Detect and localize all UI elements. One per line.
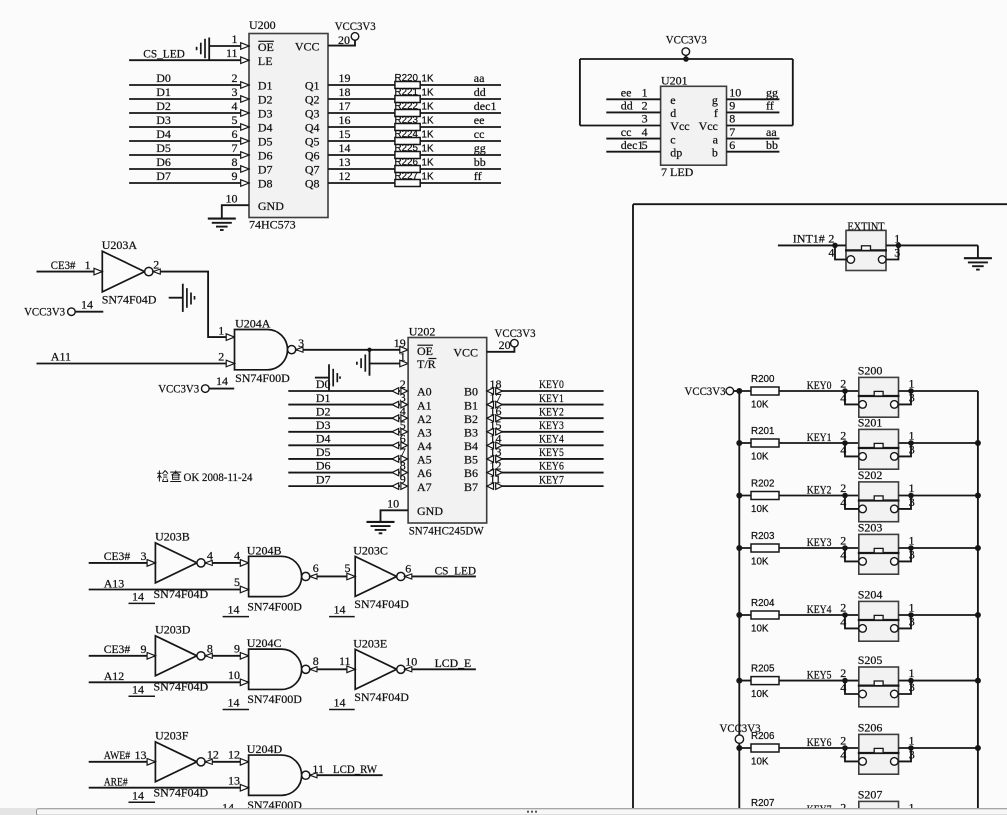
resistor R205 10K [751,677,779,685]
wire U204C output to U203E input [310,668,355,670]
U200 pin 9 wire, net D7 [129,182,249,184]
svg-text:1K: 1K [422,73,434,84]
svg-text:U203B: U203B [155,530,190,544]
U202 pin 17 wire, net KEY1 [495,404,604,406]
junction on OE wire [367,348,371,352]
svg-text:10K: 10K [751,689,769,700]
S201 pin 1 junction [908,440,914,446]
svg-text:R201: R201 [751,426,774,437]
U200 pin 8 wire, net D6 [129,168,249,170]
svg-text:14: 14 [339,141,351,155]
svg-text:CE3#: CE3# [104,549,131,563]
svg-text:1K: 1K [422,171,434,182]
svg-text:ee: ee [621,86,632,100]
S206 contacts [859,758,867,766]
svg-text:5: 5 [232,113,238,127]
svg-text:20: 20 [338,33,350,47]
svg-text:B7: B7 [464,480,478,494]
svg-text:1: 1 [232,32,238,46]
svg-text:KEY3: KEY3 [807,535,832,549]
svg-text:D4: D4 [316,432,331,446]
svg-text:4: 4 [840,443,846,457]
svg-text:S202: S202 [858,468,883,482]
svg-text:A4: A4 [417,439,432,453]
svg-text:D4: D4 [258,121,273,135]
svg-text:OE: OE [417,344,433,358]
svg-text:6: 6 [729,138,735,152]
nand gate U204C [249,649,302,689]
svg-text:2: 2 [840,481,846,495]
svg-text:aa: aa [474,71,485,85]
svg-text:11: 11 [339,654,351,668]
svg-text:U203A: U203A [102,238,138,252]
svg-text:14: 14 [334,695,346,709]
svg-text:Q3: Q3 [305,107,320,121]
svg-text:VCC3V3: VCC3V3 [335,19,376,33]
junction R200 at left bus [736,388,742,394]
junction R204 at left bus [736,612,742,618]
svg-text:15: 15 [490,418,502,432]
svg-text:gg: gg [474,141,486,155]
svg-text:SN74F00D: SN74F00D [247,692,302,706]
U202 pin 11 wire, net KEY7 [495,485,604,487]
U200 pin 2 wire, net D0 [129,84,249,86]
S204 pin 1 junction [908,612,914,618]
S200 button bar [858,395,900,397]
svg-text:bb: bb [474,155,486,169]
switch S203 body [859,534,899,574]
svg-text:10K: 10K [751,624,769,635]
svg-text:OK 2008-11-24: OK 2008-11-24 [184,470,253,484]
svg-text:VCC: VCC [295,39,320,53]
svg-text:D6: D6 [316,459,331,473]
svg-text:CE3#: CE3# [51,258,76,272]
svg-text:2: 2 [642,99,648,113]
U204C second input wire, net A12 [89,681,249,683]
U200 pin 20 VCC wire to VCC3V3 [328,40,355,45]
svg-text:14: 14 [81,297,93,311]
U202 pin 9 wire, net D7 [288,485,400,487]
svg-text:3: 3 [232,85,238,99]
svg-text:CE3#: CE3# [104,642,131,656]
ground (sideways, floating) near U203A [169,297,183,299]
svg-text:4: 4 [642,125,648,139]
U202 pin 18 wire, net KEY0 [495,390,604,392]
U203A pin 2 output wire to U204A pin 1 [153,272,235,338]
svg-text:10: 10 [405,654,417,668]
S206 pin 4 wire [845,748,859,761]
svg-text:D8: D8 [258,177,273,191]
svg-text:R224: R224 [395,129,419,140]
svg-text:S206: S206 [858,721,883,735]
S207 pin 2 junction [842,812,848,815]
svg-text:14: 14 [216,374,228,388]
svg-text:4: 4 [840,681,846,695]
svg-text:6: 6 [232,127,238,141]
svg-text:GND: GND [258,199,284,213]
S205 pin 1 junction [908,678,914,684]
svg-text:7: 7 [232,141,238,155]
S205 pin 4 wire [845,681,859,694]
svg-text:VCC: VCC [453,346,478,360]
svg-text:Q6: Q6 [305,149,320,163]
svg-text:16: 16 [339,113,351,127]
svg-text:A13: A13 [104,576,125,590]
S204 contacts [859,625,867,633]
svg-text:3: 3 [642,112,648,126]
S206 button bar [858,752,900,754]
S202 contacts [859,505,867,513]
U202 pin 3 wire, net D1 [288,404,400,406]
svg-text:4: 4 [840,615,846,629]
power symbol VCC3V3 at U200 pin 20 [351,33,359,41]
svg-text:LCD_RW: LCD_RW [333,762,378,776]
wire U203B output to U204B input [205,562,248,564]
svg-text:13: 13 [339,155,351,169]
svg-text:KEY3: KEY3 [539,418,564,432]
svg-text:R200: R200 [751,374,775,385]
svg-text:D3: D3 [258,107,273,121]
U201 pin 3 wire to VCC rail [580,125,661,127]
svg-text:KEY1: KEY1 [807,430,832,444]
switch S201 body [859,429,899,469]
svg-text:KEY6: KEY6 [539,459,564,473]
svg-text:B3: B3 [464,425,478,439]
svg-text:dec1: dec1 [474,99,497,113]
svg-text:D1: D1 [316,391,331,405]
svg-text:GND: GND [417,504,443,518]
S204 pin 1/3 wires [899,614,978,616]
svg-text:10K: 10K [751,557,769,568]
svg-text:S203: S203 [858,521,883,535]
svg-text:D5: D5 [316,445,331,459]
U200 pin 14 Q6 output wire [328,154,501,156]
svg-text:B0: B0 [464,385,478,399]
resistor R222 1K [395,110,420,117]
svg-text:1: 1 [642,86,648,100]
svg-text:Q2: Q2 [305,93,320,107]
svg-text:Vcc: Vcc [699,119,718,133]
resistor R200 10K [751,387,779,395]
svg-text:SN74HC245DW: SN74HC245DW [409,523,485,537]
svg-text:B5: B5 [464,453,478,467]
wire VCC rail over U201 [580,58,793,60]
svg-text:KEY5: KEY5 [539,445,564,459]
key row wire, net KEY5 [739,680,859,682]
S206 pin 2 junction [842,745,848,751]
svg-text:cc: cc [621,125,632,139]
svg-text:VCC3V3: VCC3V3 [666,32,707,46]
svg-text:9: 9 [400,472,406,486]
svg-text:SN74F00D: SN74F00D [247,599,302,613]
junction R206 at left bus [736,745,742,751]
junction right bus row 1 [975,440,981,446]
svg-text:4: 4 [840,748,846,762]
S204 pin 2 junction [842,612,848,618]
svg-text:dd: dd [621,99,633,113]
svg-text:T/R: T/R [417,357,436,371]
S200 contacts [859,401,867,409]
nand gate U204B [249,556,302,596]
EXTINT pin 2 wire, net INT1# [778,244,846,246]
resistor R224 1K [395,138,420,145]
svg-text:ARE#: ARE# [104,775,128,789]
svg-text:19: 19 [394,336,406,350]
U202 pin 15 wire, net KEY3 [495,431,604,433]
U202 pin 20 VCC wire [487,347,515,352]
S205 contacts [859,690,867,698]
svg-text:4: 4 [232,99,238,113]
U200 pin 4 wire, net D2 [129,112,249,114]
svg-text:U203D: U203D [155,622,191,636]
svg-text:U204A: U204A [235,317,271,331]
annotation text 检查OK 2008-11-24 [158,471,160,482]
inverter U203B [155,543,197,583]
svg-text:8: 8 [729,112,735,126]
scrollbar thumb [37,809,1007,815]
svg-text:g: g [712,93,718,107]
svg-text:D0: D0 [156,71,171,85]
svg-text:13: 13 [490,445,502,459]
svg-text:U204B: U204B [247,543,282,557]
U201 pin 5 wire, net dec1 [606,151,660,153]
switch EXTINT body [846,230,886,270]
U200 pin 6 wire, net D4 [129,140,249,142]
svg-text:2: 2 [840,601,846,615]
S202 button bar [858,499,900,501]
svg-text:R222: R222 [395,101,418,112]
ground at U202 pin 10 [367,521,395,523]
svg-text:S204: S204 [858,588,883,602]
svg-text:17: 17 [490,391,502,405]
svg-text:A2: A2 [417,412,432,426]
svg-text:AWE#: AWE# [104,748,131,762]
resistor R206 10K [751,744,779,752]
svg-text:Q5: Q5 [305,135,320,149]
svg-text:8: 8 [400,459,406,473]
svg-text:R226: R226 [395,157,419,168]
U204A pin 2 input wire, net A11 [37,363,235,365]
switch S200 body [859,377,899,417]
S207 pin 1 junction [908,812,914,815]
key row wire, net KEY6 [739,747,859,749]
junction R203 at left bus [736,545,742,551]
svg-text:2: 2 [840,666,846,680]
svg-text:LCD_E: LCD_E [435,656,472,670]
left pull-up bus wire [738,391,740,815]
svg-text:d: d [670,106,676,120]
svg-text:10K: 10K [751,400,769,411]
svg-text:2: 2 [153,257,159,271]
ground right of EXTINT [964,257,992,259]
svg-text:R202: R202 [751,478,774,489]
svg-text:dec1: dec1 [621,138,644,152]
U200 pin 16 Q4 output wire [328,126,501,128]
U202 pin 13 wire, net KEY5 [495,458,604,460]
svg-text:ff: ff [766,99,774,113]
U200 pin 13 Q7 output wire [328,168,501,170]
switch S207 body [859,801,899,815]
S203 button bar [858,552,900,554]
scrollbar track [0,808,1007,815]
svg-text:9: 9 [234,641,240,655]
U201 pin 4 wire, net cc [606,138,660,140]
svg-text:D3: D3 [156,113,171,127]
svg-text:6: 6 [405,562,411,576]
svg-text:Q1: Q1 [305,79,320,93]
svg-text:5: 5 [345,561,351,575]
svg-text:KEY4: KEY4 [539,432,564,446]
svg-text:13: 13 [135,748,147,762]
junction R201 at left bus [736,440,742,446]
svg-text:KEY0: KEY0 [807,378,832,392]
U203A pin 1 input wire, net CE3# [37,271,103,273]
svg-text:R205: R205 [751,663,775,674]
svg-text:12: 12 [228,747,240,761]
svg-text:R227: R227 [395,171,418,182]
svg-text:a: a [713,132,719,146]
switch S205 body [859,667,899,707]
svg-text:INT1#: INT1# [793,232,825,246]
inverter U203E [355,649,397,689]
svg-text:2: 2 [400,377,406,391]
svg-text:D4: D4 [156,127,171,141]
svg-text:dd: dd [474,85,486,99]
svg-text:74HC573: 74HC573 [249,217,296,231]
svg-text:18: 18 [339,85,351,99]
svg-text:KEY0: KEY0 [539,377,564,391]
svg-text:14: 14 [132,789,144,803]
U202 pin 4 wire, net D2 [288,417,400,419]
S207 pin 1/3 wires [899,814,978,815]
switch S202 body [859,482,899,522]
svg-text:D1: D1 [258,79,273,93]
svg-text:R225: R225 [395,143,419,154]
resistor R204 10K [751,611,779,619]
svg-text:1K: 1K [422,129,434,140]
svg-text:A5: A5 [417,453,432,467]
svg-text:10: 10 [729,86,741,100]
EXTINT contacts [847,256,855,264]
svg-text:D5: D5 [156,141,171,155]
U203B input wire, net CE3# [89,562,156,564]
svg-text:4: 4 [840,548,846,562]
svg-text:U203F: U203F [155,728,189,742]
S200 pin 2 junction [842,388,848,394]
wire U204B output to U203C input [310,575,355,577]
U202 pin 14 wire, net KEY4 [495,444,604,446]
svg-text:D0: D0 [316,377,331,391]
svg-text:9: 9 [232,169,238,183]
svg-text:B6: B6 [464,466,478,480]
key row wire, net KEY7 [739,814,859,815]
EXTINT button bar [845,249,887,251]
U200 pin 12 Q8 output wire [328,182,501,184]
svg-text:A12: A12 [104,669,125,683]
U202 pin 16 wire, net KEY2 [495,417,604,419]
svg-text:1K: 1K [422,87,434,98]
key row wire, net KEY1 [739,442,859,444]
svg-text:7 LED: 7 LED [661,165,694,179]
svg-text:KEY2: KEY2 [539,404,564,418]
svg-text:gg: gg [766,86,778,100]
junction right bus row 4 [975,612,981,618]
U201 pin 9 wire, net ff [727,111,780,113]
svg-text:VCC3V3: VCC3V3 [158,382,199,396]
S204 button bar [858,619,900,621]
svg-text:Q4: Q4 [305,121,320,135]
svg-text:1K: 1K [422,101,434,112]
wire U204A pin 3 output to U202 pin 19 [296,349,408,351]
S203 contacts [859,558,867,566]
VCC rail junction above U201 [683,56,689,62]
svg-text:D2: D2 [258,93,273,107]
svg-text:D3: D3 [316,418,331,432]
U200 pin 19 Q1 output wire [328,84,501,86]
svg-text:S205: S205 [858,653,883,667]
junction right bus row 6 [975,745,981,751]
svg-text:D6: D6 [258,149,273,163]
svg-text:A0: A0 [417,385,432,399]
svg-text:aa: aa [766,125,777,139]
svg-text:R223: R223 [395,115,419,126]
S203 pin 4 wire [845,548,859,561]
svg-text:11: 11 [226,46,238,60]
S201 pin 1/3 wires [899,442,978,444]
S201 pin 4 wire [845,443,859,456]
svg-text:10K: 10K [751,504,769,515]
S200 pin 1 junction [908,388,914,394]
svg-text:U203C: U203C [353,543,388,557]
svg-text:14: 14 [490,431,502,445]
junction right bus row 5 [975,678,981,684]
S201 pin 2 junction [842,440,848,446]
U203C output wire, net CS_LED [405,575,476,577]
U203D input wire, net CE3# [89,655,156,657]
svg-text:D5: D5 [258,135,273,149]
svg-text:KEY5: KEY5 [807,668,832,682]
U200 pin 7 wire, net D5 [129,154,249,156]
svg-text:2: 2 [840,534,846,548]
svg-text:1: 1 [218,323,224,337]
U202 pin 5 wire, net D3 [288,431,400,433]
junction right bus row 2 [975,493,981,499]
resistor R225 1K [395,152,420,159]
svg-text:U204C: U204C [247,636,282,650]
U203E output wire, net LCD_E [405,668,476,670]
svg-text:4: 4 [828,245,834,259]
junction R205 at left bus [736,678,742,684]
U202 pin 12 wire, net KEY6 [495,472,604,474]
wire U203D output to U204C input [205,655,248,657]
S201 button bar [858,447,900,449]
svg-text:5: 5 [642,138,648,152]
svg-text:KEY7: KEY7 [539,472,564,486]
svg-text:U203E: U203E [353,636,387,650]
svg-text:10K: 10K [751,452,769,463]
svg-text:4: 4 [400,404,406,418]
svg-text:R207: R207 [751,798,774,809]
svg-text:f: f [714,106,718,120]
svg-text:12: 12 [490,459,502,473]
svg-text:R221: R221 [395,87,418,98]
S205 button bar [858,684,900,686]
U200 pin 5 wire, net D3 [129,126,249,128]
svg-text:10: 10 [387,496,399,510]
svg-text:VCC3V3: VCC3V3 [720,721,761,735]
svg-text:S207: S207 [858,788,883,802]
U201 pin 7 wire, net aa [727,138,780,140]
